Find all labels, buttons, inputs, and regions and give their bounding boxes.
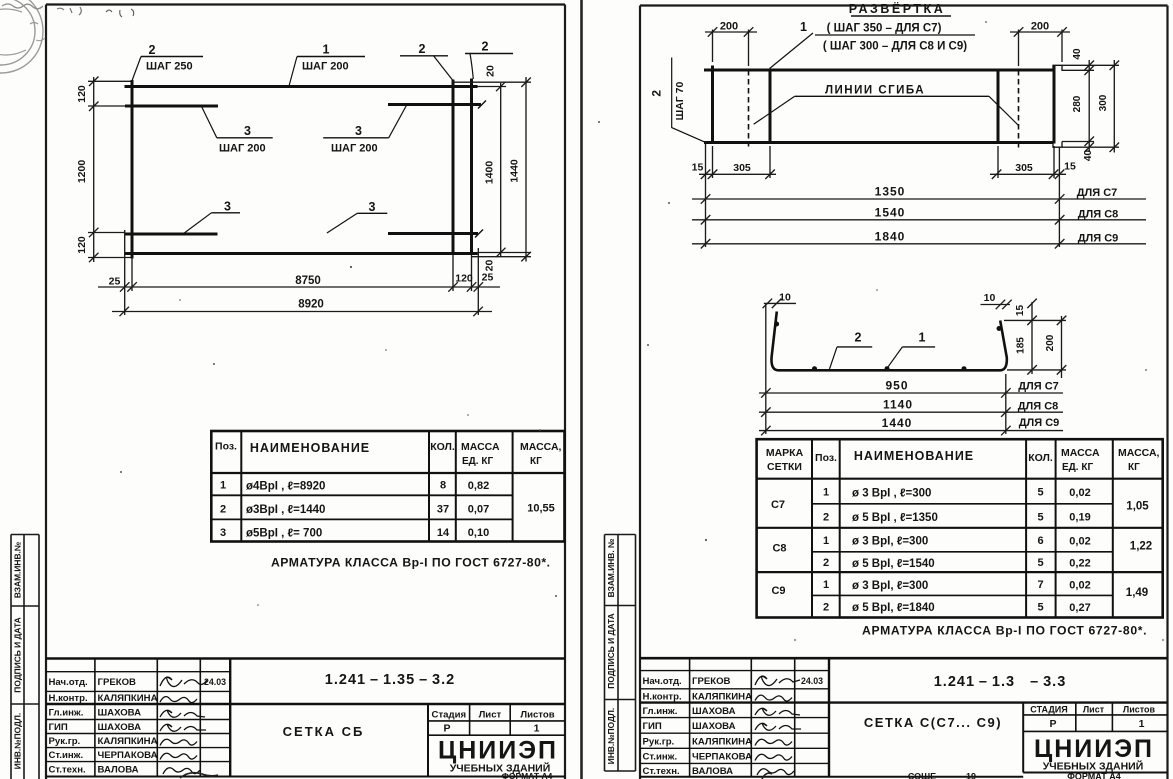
svg-text:1440: 1440 bbox=[509, 159, 521, 183]
svg-text:ГИП: ГИП bbox=[49, 722, 68, 733]
dimension line 1440 для С9 bbox=[759, 426, 1063, 436]
svg-text:6: 6 bbox=[1037, 535, 1043, 547]
leader left to fold line bbox=[754, 96, 795, 124]
svg-text:1: 1 bbox=[823, 487, 829, 499]
svg-text:120: 120 bbox=[455, 273, 473, 285]
svg-text:1400: 1400 bbox=[484, 161, 496, 185]
svg-text:НАИМЕНОВАНИЕ: НАИМЕНОВАНИЕ bbox=[854, 449, 974, 463]
svg-text:ø 5 ВрI , ℓ=1350: ø 5 ВрI , ℓ=1350 bbox=[852, 512, 938, 524]
bottom dim 15/305 left bbox=[699, 144, 776, 248]
title block column lines (sheet 2) bbox=[690, 658, 1113, 777]
svg-text:ДЛЯ С9: ДЛЯ С9 bbox=[1019, 417, 1060, 429]
title block outer top line bbox=[46, 657, 565, 660]
svg-text:15: 15 bbox=[1064, 161, 1076, 173]
svg-text:1350: 1350 bbox=[875, 185, 906, 199]
dimension line 1140 для С8 bbox=[759, 407, 1063, 417]
svg-text:20: 20 bbox=[484, 260, 496, 272]
svg-text:ШАГ 250: ШАГ 250 bbox=[146, 61, 193, 73]
svg-text:1540: 1540 bbox=[875, 205, 906, 219]
label 1 шаг 200 with leader bbox=[289, 43, 365, 87]
svg-text:2: 2 bbox=[650, 90, 664, 97]
svg-text:8: 8 bbox=[440, 480, 446, 492]
fold line right (dashed) bbox=[1018, 70, 1020, 148]
role labels column (sheet 2) bbox=[643, 676, 682, 777]
svg-text:8750: 8750 bbox=[295, 275, 321, 287]
svg-text:2: 2 bbox=[482, 40, 489, 54]
mesh left vertical wire pos.2 bbox=[131, 80, 134, 259]
svg-text:ФОРМАТ А4: ФОРМАТ А4 bbox=[1067, 772, 1121, 779]
svg-text:200: 200 bbox=[720, 21, 738, 33]
mesh right vertical wire pos.2 (first) bbox=[452, 80, 455, 256]
svg-text:0,27: 0,27 bbox=[1069, 602, 1090, 614]
section right extension lines bbox=[1004, 320, 1066, 370]
svg-text:10,55: 10,55 bbox=[527, 503, 555, 515]
svg-text:10: 10 bbox=[984, 292, 996, 304]
svg-text:ПОДПИСЬ И ДАТА: ПОДПИСЬ И ДАТА bbox=[606, 613, 616, 688]
leader from note to wire 1 bbox=[770, 33, 813, 69]
table column lines bbox=[241, 431, 512, 542]
svg-text:2: 2 bbox=[419, 42, 426, 56]
extension lines to left dimension line bbox=[88, 81, 131, 257]
svg-text:ø 3 ВрI, ℓ=300: ø 3 ВрI, ℓ=300 bbox=[852, 580, 928, 592]
svg-text:185: 185 bbox=[1016, 337, 1027, 354]
title block bottom lines (sheet 2) bbox=[640, 776, 1023, 778]
svg-text:950: 950 bbox=[885, 379, 908, 393]
svg-text:Ст.техн.: Ст.техн. bbox=[643, 766, 680, 777]
dimension line 8920 bbox=[112, 307, 492, 317]
svg-text:ШАХОВА: ШАХОВА bbox=[98, 708, 142, 719]
svg-text:120: 120 bbox=[76, 85, 88, 103]
svg-text:ВАЛОВА: ВАЛОВА bbox=[98, 765, 139, 776]
svg-text:ДЛЯ С8: ДЛЯ С8 bbox=[1078, 208, 1119, 220]
label 3 шаг 200 (left) with leader bbox=[202, 107, 273, 155]
svg-text:РАЗВЁРТКА: РАЗВЁРТКА bbox=[849, 1, 945, 16]
wire dot on bottom left bbox=[812, 366, 817, 371]
svg-text:ЕД. КГ: ЕД. КГ bbox=[1062, 462, 1093, 473]
svg-text:КГ: КГ bbox=[1128, 462, 1140, 473]
svg-text:1: 1 bbox=[800, 20, 807, 34]
svg-text:2: 2 bbox=[855, 331, 862, 345]
svg-text:Н.контр.: Н.контр. bbox=[49, 693, 88, 704]
svg-text:Лист: Лист bbox=[479, 710, 502, 721]
svg-text:ø 5 ВрI, ℓ=1540: ø 5 ВрI, ℓ=1540 bbox=[852, 558, 935, 570]
svg-text:С7: С7 bbox=[771, 499, 785, 511]
bottom right notch bbox=[1053, 142, 1062, 148]
right dim extension lines bbox=[453, 82, 531, 257]
svg-text:0,19: 0,19 bbox=[1069, 512, 1090, 524]
top right notch bbox=[1053, 65, 1062, 71]
svg-text:ДЛЯ С7: ДЛЯ С7 bbox=[1077, 187, 1118, 199]
svg-text:15: 15 bbox=[692, 162, 704, 174]
svg-text:МАССА: МАССА bbox=[1061, 447, 1100, 459]
dim 10 left bbox=[763, 299, 796, 309]
svg-text:ГИП: ГИП bbox=[643, 721, 662, 732]
svg-text:3: 3 bbox=[244, 124, 251, 138]
svg-text:Нач.отд.: Нач.отд. bbox=[49, 677, 88, 688]
svg-text:КАЛЯПКИНА: КАЛЯПКИНА bbox=[692, 736, 752, 747]
development second vertical wire 2 bbox=[769, 69, 772, 144]
RIGHT SHEET frame border bbox=[640, 6, 1168, 779]
svg-text:МАССА: МАССА bbox=[461, 441, 500, 453]
svg-text:ГРЕКОВ: ГРЕКОВ bbox=[692, 676, 731, 687]
svg-text:МАРКА: МАРКА bbox=[766, 447, 804, 459]
svg-text:ДЛЯ С8: ДЛЯ С8 bbox=[1018, 401, 1059, 413]
svg-text:1,49: 1,49 bbox=[1126, 587, 1148, 599]
dimension 200 right bbox=[1010, 27, 1070, 66]
dimension line 1540 для С8 bbox=[692, 215, 1146, 225]
svg-text:1,22: 1,22 bbox=[1130, 541, 1152, 553]
svg-text:ШАХОВА: ШАХОВА bbox=[692, 721, 736, 732]
svg-text:1200: 1200 bbox=[76, 160, 88, 184]
specification table frame bbox=[211, 431, 564, 542]
svg-text:( ШАГ 300 – ДЛЯ С8 И С9): ( ШАГ 300 – ДЛЯ С8 И С9) bbox=[823, 41, 967, 53]
svg-text:СОШЕ: СОШЕ bbox=[908, 772, 936, 779]
svg-text:1: 1 bbox=[823, 535, 829, 547]
dimension line 950 для С7 bbox=[759, 388, 1063, 398]
scan speckles bbox=[120, 21, 1164, 641]
svg-text:300: 300 bbox=[1098, 94, 1109, 111]
svg-text:2: 2 bbox=[823, 557, 829, 569]
dimension line 1840 для С9 bbox=[692, 239, 1146, 249]
development left vertical wire 2 bbox=[711, 66, 714, 144]
svg-text:Ст.техн.: Ст.техн. bbox=[49, 765, 86, 776]
label 2 (first top-right) with leader bbox=[400, 42, 453, 80]
svg-text:1,05: 1,05 bbox=[1126, 501, 1149, 513]
handwritten mark at bottom of sheet 1 bbox=[180, 773, 218, 778]
svg-text:ПОДПИСЬ И ДАТА: ПОДПИСЬ И ДАТА bbox=[13, 617, 23, 692]
svg-text:14: 14 bbox=[437, 527, 450, 539]
svg-text:Рук.гр.: Рук.гр. bbox=[49, 736, 81, 747]
table row lines bbox=[211, 473, 565, 519]
svg-text:ВЗАМ.ИНВ. №: ВЗАМ.ИНВ. № bbox=[606, 538, 616, 597]
bottom dim 305/15 right bbox=[990, 146, 1066, 247]
svg-text:280: 280 bbox=[1072, 95, 1083, 112]
svg-text:1840: 1840 bbox=[875, 229, 906, 243]
svg-text:ЦНИИЭП: ЦНИИЭП bbox=[438, 737, 558, 765]
svg-text:ВЗАМ.ИНВ.№: ВЗАМ.ИНВ.№ bbox=[13, 541, 23, 598]
svg-text:ø5ВрI , ℓ= 700: ø5ВрI , ℓ= 700 bbox=[246, 528, 322, 540]
dimension line 200 (x=1061.5) bbox=[1057, 316, 1067, 378]
dim 10 right bbox=[981, 300, 1012, 310]
стадия block row lines bbox=[428, 721, 565, 735]
svg-text:ø 5 ВрI, ℓ=1840: ø 5 ВрI, ℓ=1840 bbox=[852, 602, 935, 614]
svg-text:19: 19 bbox=[966, 772, 976, 779]
development bottom wire bbox=[704, 141, 1053, 144]
label 3 шаг 200 (right) with leader bbox=[323, 106, 406, 155]
svg-text:3: 3 bbox=[369, 200, 376, 214]
label 2 шаг 70 with leader bbox=[650, 58, 705, 142]
svg-text:1440: 1440 bbox=[882, 416, 913, 430]
dimension line 1350 для С7 bbox=[692, 194, 1146, 204]
mesh bottom wire pos.1 bbox=[125, 252, 478, 255]
svg-text:С9: С9 bbox=[771, 585, 785, 597]
svg-text:КОЛ.: КОЛ. bbox=[430, 441, 455, 453]
svg-text:МАССА,: МАССА, bbox=[520, 441, 562, 453]
mesh table group lines bbox=[757, 528, 1163, 572]
title block bottom line bbox=[46, 776, 565, 778]
dimension line 40/280/40 (x=1089) bbox=[1085, 60, 1095, 152]
mesh table header bottom line bbox=[757, 478, 1163, 480]
svg-text:1: 1 bbox=[919, 331, 926, 345]
mesh lower inner wire pos.3 left segment bbox=[125, 233, 218, 236]
svg-text:5: 5 bbox=[1037, 487, 1043, 499]
svg-text:0,02: 0,02 bbox=[1069, 580, 1090, 592]
underline between notes bbox=[815, 34, 975, 36]
svg-text:3: 3 bbox=[224, 200, 231, 214]
left sheet margin column boxes bbox=[11, 535, 39, 779]
development top wire bbox=[704, 69, 1053, 72]
svg-text:3: 3 bbox=[220, 527, 226, 539]
svg-text:40: 40 bbox=[1083, 150, 1094, 162]
bottom dim extension verticals bbox=[125, 230, 479, 315]
svg-text:Гл.инж.: Гл.инж. bbox=[49, 708, 84, 719]
svg-text:1140: 1140 bbox=[883, 398, 913, 412]
fold line left (dashed) bbox=[748, 70, 750, 147]
dimension line 15/185 (x=1032) bbox=[1027, 299, 1037, 375]
tick at end of lower inner wire bbox=[475, 230, 483, 238]
svg-text:2: 2 bbox=[823, 511, 829, 523]
faint handwriting above stamp bbox=[2, 4, 43, 9]
svg-text:200: 200 bbox=[1045, 334, 1056, 351]
wire dot on left hook bbox=[774, 322, 779, 327]
mesh upper inner wire pos.3 right segment bbox=[388, 103, 481, 106]
title block column lines bbox=[95, 659, 510, 777]
svg-text:НАИМЕНОВАНИЕ: НАИМЕНОВАНИЕ bbox=[250, 441, 370, 455]
dimension line 300 (x=1114) bbox=[1110, 60, 1120, 153]
mesh right vertical wire pos.2 (second) bbox=[470, 79, 473, 256]
svg-text:20: 20 bbox=[485, 65, 497, 77]
svg-text:АРМАТУРА КЛАССА Вр-I ПО ГОС: АРМАТУРА КЛАССА Вр-I ПО ГОСТ 6727-80*. bbox=[862, 624, 1147, 638]
title block section divider (thick) bbox=[46, 703, 565, 705]
signature squiggles bbox=[160, 677, 207, 774]
wire dot on bottom middle bbox=[885, 366, 890, 371]
svg-text:СЕТКА С(С7... С9): СЕТКА С(С7... С9) bbox=[864, 715, 1002, 730]
svg-text:ШАХОВА: ШАХОВА bbox=[692, 706, 736, 717]
dimension 200 left bbox=[705, 27, 757, 66]
underline of title bbox=[851, 15, 951, 17]
svg-text:ø4ВрI , ℓ=8920: ø4ВрI , ℓ=8920 bbox=[246, 481, 325, 493]
svg-text:0,07: 0,07 bbox=[468, 504, 489, 516]
title block row lines (sheet 2 left section) bbox=[640, 671, 829, 764]
title block thick section divider (sheet 2) bbox=[640, 701, 1168, 703]
dimension line 8750 with 25 / 120 / 25 ticks bbox=[98, 282, 500, 292]
mesh table frame bbox=[757, 439, 1163, 617]
svg-text:200: 200 bbox=[1031, 21, 1049, 33]
dimension line 1440 bbox=[521, 77, 531, 262]
title block row lines (left section) bbox=[46, 672, 230, 762]
wire dot on right hook bbox=[997, 326, 1002, 331]
svg-text:25: 25 bbox=[482, 272, 494, 284]
svg-text:ШАГ 70: ШАГ 70 bbox=[674, 82, 686, 121]
role labels column bbox=[49, 677, 88, 776]
svg-text:АРМАТУРА КЛАССА Вр-I ПО ГОС: АРМАТУРА КЛАССА Вр-I ПО ГОСТ 6727-80*. bbox=[271, 556, 550, 570]
bent mesh section profile bbox=[771, 312, 1006, 371]
svg-text:ВАЛОВА: ВАЛОВА bbox=[692, 766, 733, 777]
svg-text:ИНВ.№ПОДЛ.: ИНВ.№ПОДЛ. bbox=[606, 708, 616, 764]
svg-text:ЧЕРПАКОВА: ЧЕРПАКОВА bbox=[98, 750, 158, 761]
underline of линии сгиба bbox=[795, 95, 989, 97]
mesh table column lines bbox=[812, 439, 1113, 617]
svg-text:Р: Р bbox=[1049, 718, 1056, 730]
svg-text:ЕД. КГ: ЕД. КГ bbox=[462, 456, 493, 467]
svg-text:ø3ВрI , ℓ=1440: ø3ВрI , ℓ=1440 bbox=[246, 504, 325, 516]
svg-text:3: 3 bbox=[355, 124, 362, 138]
title block top line (sheet 2) bbox=[640, 657, 1168, 660]
svg-text:305: 305 bbox=[733, 162, 751, 174]
svg-text:Рук.гр.: Рук.гр. bbox=[643, 736, 675, 747]
mesh top wire pos.1 bbox=[125, 85, 478, 88]
svg-text:120: 120 bbox=[76, 236, 88, 254]
svg-text:Стадия: Стадия bbox=[432, 710, 467, 721]
svg-text:1: 1 bbox=[823, 579, 829, 591]
names column (sheet 2) bbox=[692, 676, 752, 777]
svg-text:ДЛЯ С7: ДЛЯ С7 bbox=[1018, 381, 1059, 393]
small handwritten marks right of stamp bbox=[57, 7, 81, 15]
leader right to fold line bbox=[989, 96, 1019, 125]
svg-text:Лист: Лист bbox=[1083, 705, 1105, 715]
svg-text:1: 1 bbox=[323, 43, 330, 57]
svg-text:1.241 – 1.3 – 3.3: 1.241 – 1.3 – 3.3 bbox=[934, 674, 1067, 690]
svg-text:Поз.: Поз. bbox=[215, 441, 237, 453]
svg-text:305: 305 bbox=[1015, 162, 1033, 174]
svg-text:2: 2 bbox=[823, 602, 829, 614]
scan fold separation line between sheets bbox=[580, 0, 583, 779]
svg-text:КАЛЯПКИНА: КАЛЯПКИНА bbox=[98, 736, 158, 747]
svg-text:ШАХОВА: ШАХОВА bbox=[98, 722, 142, 733]
mesh table sub-row lines bbox=[812, 504, 1113, 596]
svg-text:2: 2 bbox=[220, 504, 226, 516]
handwritten mark bottom sheet 2 bbox=[762, 773, 772, 779]
svg-text:1: 1 bbox=[534, 723, 540, 735]
label 1 with leader bbox=[887, 331, 936, 370]
svg-text:ø 3 ВрI , ℓ=300: ø 3 ВрI , ℓ=300 bbox=[852, 488, 931, 500]
svg-text:Гл.инж.: Гл.инж. bbox=[643, 706, 678, 717]
svg-text:24.03: 24.03 bbox=[204, 677, 226, 687]
svg-text:0,10: 0,10 bbox=[468, 527, 489, 539]
sheet 1 frame border bbox=[46, 5, 565, 779]
label 2 with leader bbox=[830, 331, 873, 370]
round inventory stamp top-left (faint) bbox=[0, 0, 45, 73]
svg-text:0,22: 0,22 bbox=[1069, 558, 1090, 570]
svg-text:2: 2 bbox=[149, 43, 156, 57]
svg-text:СТАДИЯ: СТАДИЯ bbox=[1030, 705, 1067, 715]
svg-text:ЦНИИЭП: ЦНИИЭП bbox=[1034, 735, 1154, 763]
svg-text:МАССА,: МАССА, bbox=[1118, 447, 1160, 459]
svg-text:ШАГ 200: ШАГ 200 bbox=[219, 143, 266, 155]
svg-text:ФОРМАТ А4: ФОРМАТ А4 bbox=[502, 771, 553, 779]
svg-text:1: 1 bbox=[1139, 718, 1145, 730]
svg-text:ШАГ 200: ШАГ 200 bbox=[302, 61, 349, 73]
svg-text:5: 5 bbox=[1037, 511, 1043, 523]
development right vertical wire 2 bbox=[1053, 66, 1056, 144]
right sheet margin column boxes bbox=[605, 535, 636, 772]
svg-text:Ст.инж.: Ст.инж. bbox=[643, 752, 678, 763]
svg-text:8920: 8920 bbox=[298, 299, 324, 311]
svg-text:0,82: 0,82 bbox=[468, 480, 489, 492]
left vertical dimension line 120/1200/120 bbox=[89, 77, 99, 263]
svg-text:Листов: Листов bbox=[1123, 705, 1156, 715]
names column bbox=[98, 677, 158, 776]
svg-text:Н.контр.: Н.контр. bbox=[643, 692, 682, 703]
svg-text:ИНВ.№ПОДЛ.: ИНВ.№ПОДЛ. bbox=[13, 713, 23, 769]
svg-text:ДЛЯ С9: ДЛЯ С9 bbox=[1078, 232, 1119, 244]
svg-text:5: 5 bbox=[1037, 602, 1043, 614]
tick at end of upper inner wire bbox=[478, 101, 486, 109]
svg-text:ЧЕРПАКОВА: ЧЕРПАКОВА bbox=[692, 752, 752, 763]
tiny pen marks near top frame bbox=[106, 9, 134, 17]
wire dot on bottom right bbox=[962, 366, 967, 371]
svg-text:КАЛЯПКИНА: КАЛЯПКИНА bbox=[692, 692, 752, 703]
label 3 (lower left) with leader bbox=[184, 200, 240, 234]
svg-text:0,02: 0,02 bbox=[1069, 535, 1090, 547]
svg-text:0,02: 0,02 bbox=[1069, 487, 1090, 499]
svg-text:40: 40 bbox=[1072, 48, 1083, 60]
svg-text:1.241 – 1.35 – 3.2: 1.241 – 1.35 – 3.2 bbox=[325, 672, 455, 688]
svg-text:Поз.: Поз. bbox=[815, 452, 837, 464]
svg-text:КГ: КГ bbox=[530, 456, 542, 467]
svg-text:25: 25 bbox=[109, 276, 121, 288]
svg-text:СЕТКА СБ: СЕТКА СБ bbox=[283, 724, 365, 739]
right side extension lines bbox=[1062, 65, 1119, 147]
signature squiggles (sheet 2) bbox=[755, 676, 801, 775]
mesh lower inner wire pos.3 right segment bbox=[388, 232, 478, 235]
svg-text:1: 1 bbox=[220, 480, 226, 492]
mesh upper inner wire pos.3 left segment bbox=[125, 105, 218, 108]
section bottom dim extension verticals bbox=[766, 303, 1006, 434]
svg-text:37: 37 bbox=[437, 504, 449, 516]
svg-text:КАЛЯПКИНА: КАЛЯПКИНА bbox=[98, 693, 158, 704]
svg-text:Ст.инж.: Ст.инж. bbox=[49, 750, 84, 761]
svg-text:( ШАГ 350 – ДЛЯ С7): ( ШАГ 350 – ДЛЯ С7) bbox=[827, 23, 942, 35]
svg-text:10: 10 bbox=[779, 292, 791, 304]
label 3 (lower right) with leader bbox=[327, 200, 387, 233]
svg-text:ГРЕКОВ: ГРЕКОВ bbox=[98, 677, 137, 688]
svg-text:15: 15 bbox=[1015, 305, 1026, 317]
svg-text:5: 5 bbox=[1037, 557, 1043, 569]
development third vertical wire 2 bbox=[997, 69, 1000, 144]
label 2 шаг 250 with leader bbox=[132, 43, 204, 82]
dimension line 1400 bbox=[496, 82, 506, 258]
svg-text:С8: С8 bbox=[772, 543, 786, 555]
label 2 (second top-right) with leader bbox=[465, 40, 513, 80]
svg-text:ЛИНИИ СГИБА: ЛИНИИ СГИБА bbox=[825, 85, 925, 97]
svg-text:Листов: Листов bbox=[520, 710, 554, 721]
svg-text:ШАГ 200: ШАГ 200 bbox=[331, 143, 378, 155]
svg-text:ø 3 ВрI, ℓ=300: ø 3 ВрI, ℓ=300 bbox=[852, 536, 928, 548]
svg-text:КОЛ.: КОЛ. bbox=[1028, 452, 1053, 464]
стадия block row lines (sheet 2) bbox=[1023, 715, 1167, 732]
svg-text:СЕТКИ: СЕТКИ bbox=[767, 461, 802, 473]
svg-text:24.03: 24.03 bbox=[801, 676, 823, 686]
svg-text:Нач.отд.: Нач.отд. bbox=[643, 676, 682, 687]
svg-text:Р: Р bbox=[443, 723, 450, 735]
svg-text:7: 7 bbox=[1037, 579, 1043, 591]
